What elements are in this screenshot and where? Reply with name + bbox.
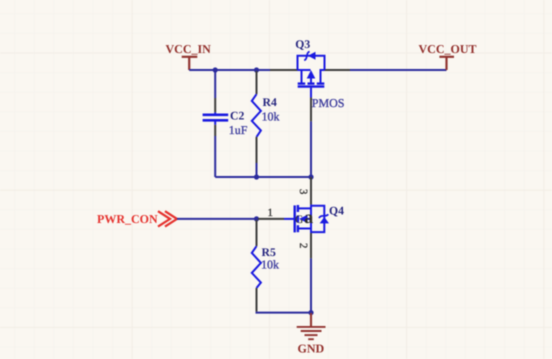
pin: Q4 drain pin 3 (dark) bbox=[310, 177, 312, 205]
resistor R4 branch bbox=[252, 71, 280, 177]
GND stem bbox=[310, 313, 312, 327]
gate stem bbox=[310, 88, 312, 98]
channel segment bottom bbox=[297, 225, 299, 232]
svg-text:R4: R4 bbox=[263, 96, 277, 109]
VCC_IN stem bbox=[188, 57, 190, 70]
svg-text:PMOS: PMOS bbox=[312, 96, 345, 110]
pin: C2 bottom (dark) bbox=[214, 125, 216, 136]
source stub bbox=[298, 228, 311, 230]
svg-text:VCC_OUT: VCC_OUT bbox=[419, 42, 477, 56]
bulk arrow bbox=[310, 77, 312, 84]
pin: R5 top (dark) bbox=[256, 220, 258, 246]
resistor R5 zigzag bbox=[252, 246, 261, 288]
resistor R5 branch bbox=[252, 220, 311, 313]
body diode triangle bbox=[308, 52, 316, 60]
VCC_OUT stem bbox=[445, 57, 447, 70]
node: junction C2 top bbox=[213, 67, 218, 72]
wire: PMOS drain to VCC_OUT bbox=[350, 69, 447, 71]
capacitor C2 branch bbox=[203, 70, 248, 177]
GND bar 4 bbox=[308, 338, 314, 340]
wire from VCC rail down bbox=[214, 70, 216, 98]
pin: C2 top (dark) bbox=[214, 98, 216, 112]
pin: Q4 gate pin 1 (dark) bbox=[258, 218, 284, 220]
pin: R4 bottom (dark) bbox=[256, 137, 258, 163]
resistor R4 zigzag bbox=[252, 94, 261, 137]
chevron 2 bbox=[165, 211, 177, 226]
svg-text:a: a bbox=[304, 207, 313, 227]
transistor Q3 (PMOS) bbox=[298, 52, 325, 98]
body diode loop bbox=[311, 206, 324, 232]
node: R4 bottom junction bbox=[254, 174, 259, 179]
GND bar 1 bbox=[297, 326, 326, 328]
svg-text:10k: 10k bbox=[261, 258, 279, 272]
D-S vertical line bbox=[310, 205, 312, 233]
svg-text:10k: 10k bbox=[262, 110, 280, 124]
GND bar 2 bbox=[301, 330, 322, 332]
node: GND junction bbox=[308, 310, 313, 315]
svg-text:GND: GND bbox=[298, 342, 325, 356]
body diode triangle bbox=[320, 217, 329, 223]
source leg bbox=[301, 70, 303, 83]
wire: PWR_CON to Q4 gate bbox=[177, 218, 258, 220]
gate lead stub bbox=[284, 218, 294, 220]
node: junction R4 top bbox=[254, 67, 259, 72]
channel segment left bbox=[298, 82, 306, 84]
svg-text:1uF: 1uF bbox=[229, 123, 248, 137]
wire bbox=[310, 121, 312, 177]
pin: R5 bottom (dark) bbox=[256, 288, 258, 312]
svg-text:2: 2 bbox=[297, 243, 309, 249]
capacitor C2 bbox=[203, 112, 229, 124]
gate bar bbox=[298, 85, 325, 87]
channel segment right bbox=[317, 82, 325, 84]
gate bar bbox=[294, 205, 296, 232]
svg-text:Q3: Q3 bbox=[295, 38, 310, 51]
pin: Q3 source (left, dark) bbox=[270, 69, 298, 71]
VCC_OUT bar bbox=[439, 56, 454, 58]
bulk stub w/ arrow bbox=[307, 218, 312, 220]
drain stub bbox=[298, 207, 311, 209]
body diode loop bbox=[298, 56, 325, 70]
ground bbox=[297, 313, 326, 339]
VCC_IN power port bbox=[166, 42, 212, 70]
channel segment middle bbox=[308, 82, 315, 84]
pin: Q3 gate (dark) bbox=[310, 98, 312, 122]
S-D connection segments bbox=[298, 69, 311, 71]
drain leg bbox=[320, 70, 322, 83]
wire: Q4 source to GND rail bbox=[310, 258, 312, 312]
pin: Q3 drain (right, dark) bbox=[325, 69, 351, 71]
VCC_IN bar bbox=[182, 56, 198, 58]
wire: R5 bottom corner to GND rail bbox=[257, 312, 312, 313]
pin: R4 top (dark) bbox=[256, 71, 258, 94]
PWR_CON port bbox=[97, 211, 177, 226]
wire: PMOS gate down bbox=[310, 98, 312, 178]
chevron 1 bbox=[158, 211, 170, 226]
pin: Q4 source pin 2 (dark) bbox=[310, 233, 312, 258]
svg-text:C2: C2 bbox=[230, 110, 244, 123]
svg-text:PWR_CON: PWR_CON bbox=[97, 212, 158, 226]
svg-text:VCC_IN: VCC_IN bbox=[166, 42, 212, 56]
svg-text:1: 1 bbox=[268, 207, 274, 219]
body diode cathode slash bbox=[304, 52, 310, 61]
wire: VCC_IN to PMOS bbox=[189, 69, 270, 71]
transistor Q4 (NMOS) bbox=[284, 205, 329, 233]
channel segment middle bbox=[297, 215, 299, 222]
node: R5 top junction bbox=[254, 216, 259, 221]
channel segment top bbox=[297, 205, 299, 212]
wire: R4 bottom to gate rail bbox=[256, 163, 258, 177]
node: gate rail / Q4 drain junction bbox=[308, 174, 313, 179]
VCC_OUT power port bbox=[419, 42, 477, 70]
wire: gate node rail bbox=[215, 176, 311, 178]
svg-text:Q4: Q4 bbox=[329, 205, 344, 218]
svg-text:3: 3 bbox=[297, 189, 309, 195]
GND bar 3 bbox=[305, 334, 318, 336]
wire: C2 bottom to gate rail bbox=[214, 136, 216, 177]
body diode cathode slash bbox=[319, 214, 328, 218]
svg-text:G: G bbox=[295, 214, 303, 226]
